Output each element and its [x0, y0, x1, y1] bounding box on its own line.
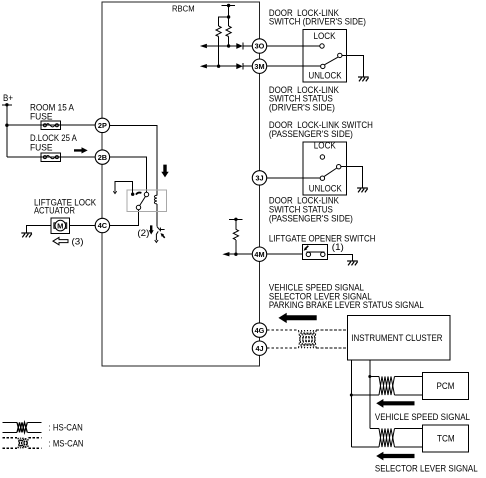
svg-text:B+: B+ — [3, 93, 13, 103]
node 4M rail dot — [234, 218, 237, 221]
resistor R2 (to 3M line) — [216, 26, 221, 36]
switch SW3 liftgate opener box — [302, 245, 327, 260]
svg-text:LOCK: LOCK — [314, 31, 336, 41]
wire: 4G dashed MS-CAN to cluster — [267, 329, 347, 331]
wire: 4J dashed MS-CAN to cluster — [267, 347, 347, 349]
relay K1 movable arm arrow — [136, 193, 141, 195]
twisted pair (HS-CAN) at PCM — [379, 377, 395, 396]
SW2 common contact — [337, 165, 341, 169]
svg-text:PARKING BRAKE LEVER STATUS SIG: PARKING BRAKE LEVER STATUS SIGNAL — [269, 300, 424, 310]
connector pin 4C — [95, 218, 109, 232]
wire: actuator to 4C — [69, 225, 95, 227]
svg-text:INSTRUMENT CLUSTER: INSTRUMENT CLUSTER — [351, 333, 443, 343]
relay K1 contact arm — [140, 197, 146, 206]
legend HS-CAN symbol — [3, 422, 42, 432]
node 3O line dot — [227, 44, 230, 47]
SW2 unlock contact — [320, 176, 324, 180]
SW3 left contact — [306, 252, 310, 256]
relay K1 fixed contact dot — [131, 193, 134, 196]
svg-text:(DRIVER'S SIDE): (DRIVER'S SIDE) — [269, 103, 335, 113]
wire: actuator ground leg — [27, 226, 52, 233]
legend MS-CAN symbol — [3, 438, 42, 448]
svg-text:VEHICLE SPEED SIGNAL: VEHICLE SPEED SIGNAL — [375, 412, 470, 422]
connector pin 4M — [252, 247, 266, 261]
svg-text:3M: 3M — [254, 62, 264, 71]
svg-text:(1): (1) — [332, 242, 344, 252]
hollow left arrow (3) at actuator — [53, 237, 68, 244]
wire: D.LOCK fuse line to 2B — [7, 156, 95, 158]
wire: 3M to driver unlock contact — [267, 65, 321, 67]
SW2 lock contact — [320, 155, 324, 159]
RBCM module box — [102, 2, 259, 366]
relay K1 coil — [154, 195, 157, 204]
svg-text:RBCM: RBCM — [172, 4, 195, 14]
switch S1 key interlock below relay — [155, 227, 165, 243]
svg-text:ACTUATOR: ACTUATOR — [34, 206, 75, 216]
svg-text:(3): (3) — [72, 236, 84, 246]
diode D1 on 3O line — [236, 43, 243, 49]
wire: 4M line inside RBCM — [229, 253, 252, 255]
node 3M line dot — [217, 65, 220, 68]
arrow into RBCM on 3M line — [200, 64, 207, 68]
wire: jog to left resistor — [219, 17, 229, 26]
wire: PCM pair bottom line — [351, 394, 422, 396]
big down arrow near relay — [161, 165, 168, 178]
SW2 contact arm — [324, 168, 337, 176]
svg-text:2P: 2P — [98, 121, 107, 130]
svg-text:(PASSENGER'S SIDE): (PASSENGER'S SIDE) — [269, 213, 353, 223]
junction: right drop to PCM top line — [368, 375, 371, 378]
big left arrow below PCM pair — [376, 399, 414, 408]
connector pin 4G — [252, 323, 266, 337]
SW1 contact arm — [325, 57, 338, 64]
connector pin 3J — [252, 171, 266, 185]
svg-text:SWITCH (DRIVER'S SIDE): SWITCH (DRIVER'S SIDE) — [269, 17, 366, 27]
wire: relay fixed contact jog to sheet arrow — [115, 182, 133, 193]
twisted pair (HS-CAN) at TCM — [379, 429, 395, 448]
wire: 4C to relay common — [110, 210, 139, 226]
ground G4 (opener switch) — [347, 261, 358, 265]
svg-text:(2): (2) — [137, 228, 149, 238]
node B+ tick dot — [5, 103, 8, 106]
wire: 3M line inside RBCM — [207, 65, 253, 67]
ground G2 (driver switch) — [358, 77, 369, 81]
svg-text:TCM: TCM — [437, 434, 455, 444]
instrument cluster box — [347, 315, 450, 360]
svg-text:4C: 4C — [98, 221, 108, 230]
wire: SW2 common to ground — [341, 167, 363, 188]
TCM box — [423, 425, 469, 452]
svg-text:3O: 3O — [255, 42, 265, 51]
wire: 3O line inside RBCM — [207, 45, 253, 47]
svg-text:UNLOCK: UNLOCK — [309, 183, 342, 193]
connector pin 2P — [95, 118, 109, 132]
connector pin 4J — [252, 341, 266, 355]
wire: rail drop to jog — [228, 6, 230, 27]
wire: SW1 common to ground — [342, 55, 363, 77]
wire: relay coil to key switch — [156, 204, 158, 227]
wire: B+ vertical feed — [6, 105, 8, 157]
node jog dot — [227, 15, 230, 18]
SW1 common contact — [338, 53, 342, 57]
resistor R1 (to 3O line) — [226, 26, 231, 36]
svg-text:: MS-CAN: : MS-CAN — [49, 438, 84, 448]
switch SW1 door lock-link (driver) box — [303, 29, 346, 82]
node fuse feed dot — [5, 124, 8, 127]
svg-text:PCM: PCM — [437, 381, 455, 391]
wire: SW3 to ground — [327, 254, 352, 261]
connector arrow (open) left jog end — [113, 191, 116, 193]
ground G1 (actuator) — [21, 233, 32, 237]
SW3 actuation lever arrow — [306, 246, 309, 249]
wire: TCM pair top line — [370, 428, 423, 430]
connector pin 3M — [252, 59, 266, 73]
resistor R3 (4M pull-up) — [235, 219, 237, 229]
node 4M line dot — [234, 253, 237, 256]
diode D2 on 3M line — [236, 63, 243, 69]
relay K1 top contact — [144, 192, 148, 196]
arrow into RBCM on 4M line — [222, 252, 229, 256]
switch SW2 door lock-link (passenger) box — [303, 142, 346, 195]
svg-text:UNLOCK: UNLOCK — [309, 71, 342, 81]
motor M1 liftgate lock actuator — [51, 218, 69, 234]
svg-text:LIFTGATE OPENER SWITCH: LIFTGATE OPENER SWITCH — [269, 234, 376, 244]
wire: internal B+ rail top — [222, 5, 235, 7]
wire: PCM pair top line — [370, 376, 423, 378]
SW1 unlock contact — [321, 64, 325, 68]
svg-text:LOCK: LOCK — [314, 141, 336, 151]
relay K1 common contact — [136, 205, 140, 209]
right arrow near D.LOCK fuse — [74, 147, 88, 153]
ground G3 (passenger switch) — [357, 188, 368, 192]
wire: ROOM fuse line to 2P — [7, 124, 95, 126]
svg-text:3J: 3J — [255, 174, 263, 183]
wire: cluster left drop to TCM low line — [350, 360, 352, 447]
connector pin 3O — [252, 39, 266, 53]
svg-text:4M: 4M — [254, 250, 264, 259]
svg-text:FUSE: FUSE — [30, 142, 53, 152]
svg-text:: HS-CAN: : HS-CAN — [49, 422, 83, 432]
twisted pair (MS-CAN) at cluster — [299, 330, 317, 348]
svg-text:4J: 4J — [255, 344, 263, 353]
node rail dot top — [227, 4, 230, 7]
svg-text:2B: 2B — [98, 153, 107, 162]
arrow into RBCM on 3O line — [200, 44, 207, 48]
wire: internal B+ rail at 4M — [229, 218, 242, 220]
big left arrow above 4G (signals to RBCM) — [278, 313, 316, 323]
svg-text:(PASSENGER'S SIDE): (PASSENGER'S SIDE) — [269, 129, 353, 139]
wire: 3J to passenger unlock contact — [267, 177, 321, 179]
svg-text:M: M — [57, 221, 63, 230]
SW3 contact bar — [307, 251, 325, 253]
wire: 4M to opener switch — [267, 253, 303, 255]
wire: cluster right drop to TCM high line — [369, 360, 371, 428]
PCM box — [423, 373, 469, 400]
wire: 3O to driver lock contact — [267, 45, 320, 47]
SW3 right contact — [321, 252, 325, 256]
fuse F2 D.LOCK 25A body — [41, 153, 61, 161]
wire: B+ supply tick — [2, 104, 12, 106]
svg-text:SELECTOR LEVER SIGNAL: SELECTOR LEVER SIGNAL — [375, 463, 478, 473]
wire: 2B to relay contact drop — [110, 157, 147, 192]
SW1 lock contact — [320, 44, 324, 48]
connector pin 2B — [95, 150, 109, 164]
wire: TCM pair bottom line — [351, 446, 422, 448]
svg-text:4G: 4G — [255, 326, 265, 335]
key switch actuation arrowhead — [163, 235, 165, 238]
junction: left drop to PCM bottom line — [350, 394, 353, 397]
wire: 2P to relay coil drop — [110, 125, 157, 195]
relay K1 box — [127, 190, 167, 212]
svg-text:FUSE: FUSE — [30, 111, 53, 121]
fuse F1 ROOM 15A body — [41, 121, 61, 129]
big left arrow below TCM pair — [376, 452, 414, 461]
big down arrow near key switch (2) — [149, 225, 154, 234]
